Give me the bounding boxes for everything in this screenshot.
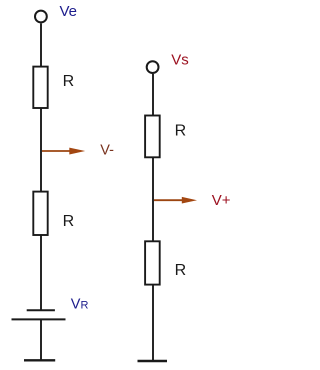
svg-text:V+: V+ bbox=[212, 192, 231, 209]
wire Ve to R1 bbox=[40, 23, 42, 67]
wire R4 to ground bbox=[152, 285, 154, 361]
ground right bbox=[138, 360, 168, 362]
wire R1 to R2 node V- bbox=[40, 108, 42, 192]
resistor R1 bbox=[33, 67, 47, 108]
resistor R4 bbox=[145, 241, 160, 284]
resistor R2 bbox=[33, 192, 47, 235]
wire Vs to R3 bbox=[152, 74, 154, 116]
battery VR short plate bbox=[27, 309, 55, 311]
svg-text:V-: V- bbox=[100, 142, 114, 158]
terminal Vs bbox=[147, 61, 159, 73]
resistor R3 bbox=[145, 116, 160, 158]
battery VR long plate bbox=[12, 318, 66, 320]
svg-text:Ve: Ve bbox=[60, 3, 78, 20]
svg-text:R: R bbox=[175, 123, 187, 140]
wire R3 to R4 node V+ bbox=[152, 157, 154, 242]
arrow V- bbox=[42, 148, 85, 155]
arrow V+ bbox=[154, 197, 197, 204]
svg-text:R: R bbox=[63, 73, 75, 90]
wire R2 to battery VR bbox=[40, 235, 42, 310]
svg-text:R: R bbox=[175, 262, 187, 279]
svg-text:VR: VR bbox=[71, 297, 89, 313]
svg-text:R: R bbox=[63, 213, 75, 230]
ground left bbox=[24, 359, 55, 361]
svg-text:Vs: Vs bbox=[171, 52, 189, 69]
wire battery to ground bbox=[40, 319, 42, 359]
terminal Ve bbox=[35, 11, 47, 23]
